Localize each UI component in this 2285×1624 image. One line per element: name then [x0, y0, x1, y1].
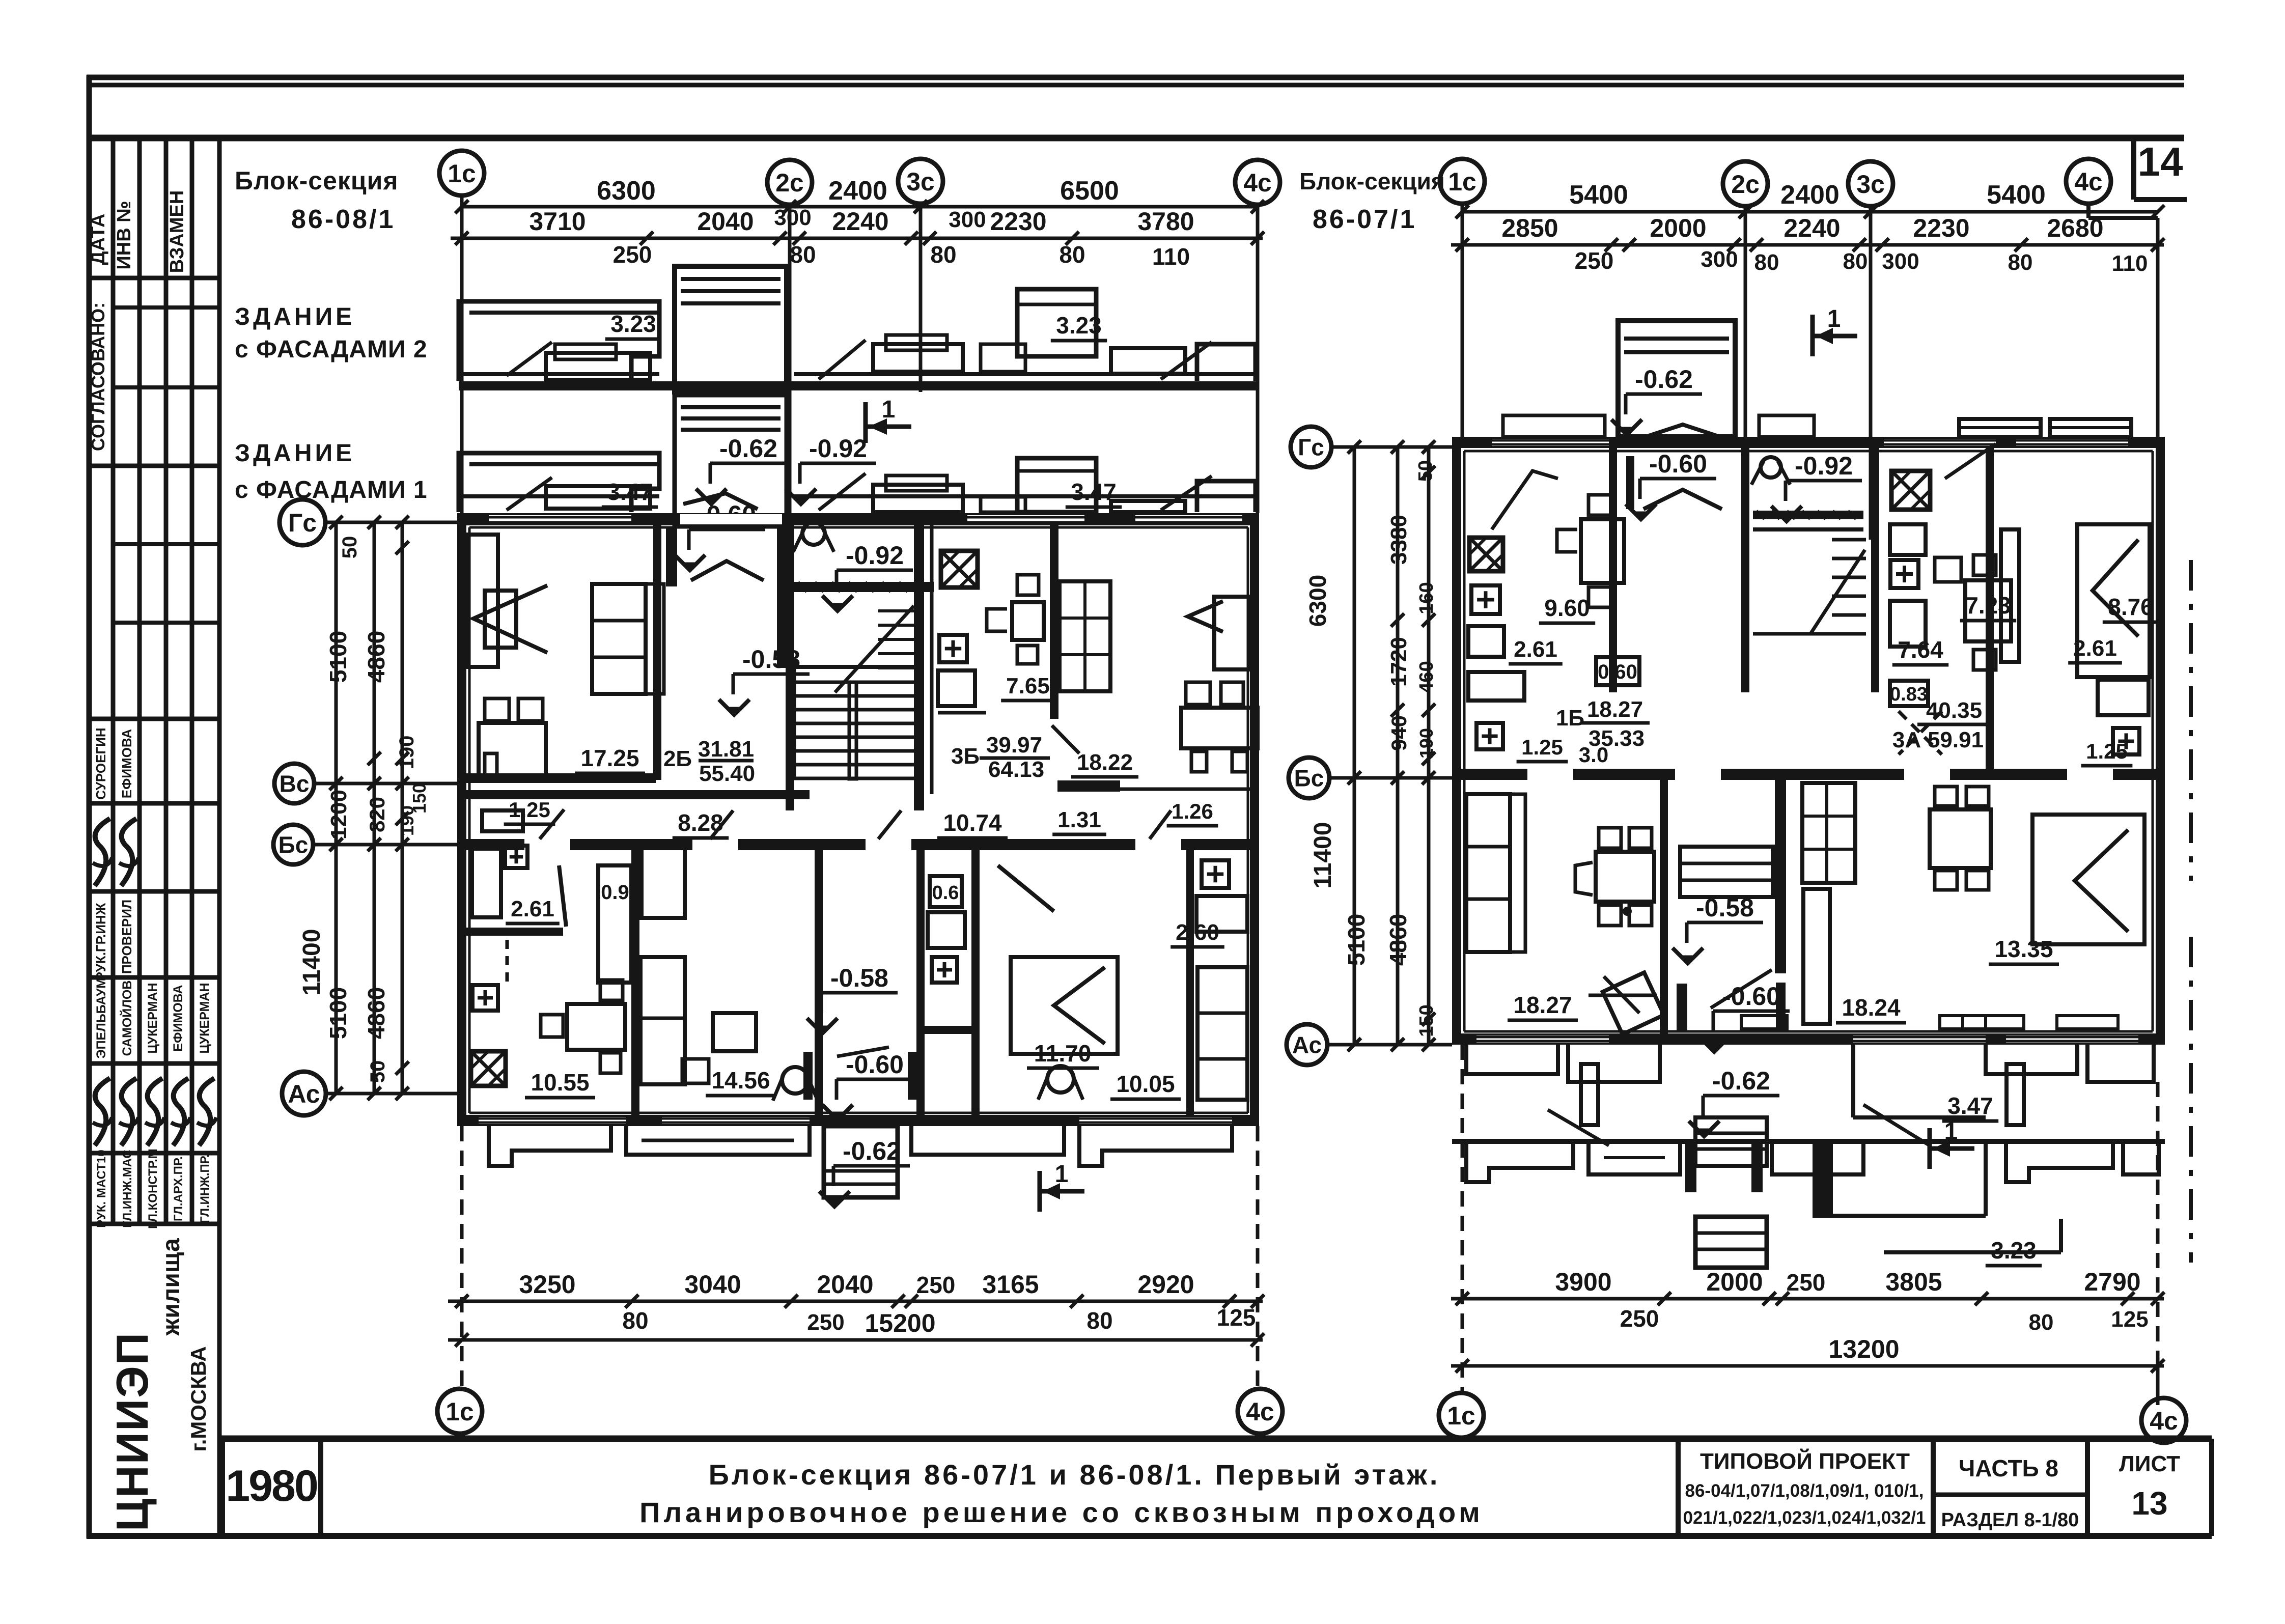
top wall window strips — [489, 515, 631, 523]
room 14.56 furniture — [642, 843, 685, 918]
left sidebar stamp table — [111, 138, 116, 1224]
svg-text:150: 150 — [409, 783, 430, 814]
svg-text:2230: 2230 — [990, 207, 1046, 236]
partition vestibule right b — [1775, 780, 1786, 973]
svg-text:-0.60: -0.60 — [846, 1050, 904, 1079]
door swing wing a — [1863, 1105, 1930, 1145]
sink kitchen 7.65 — [939, 635, 967, 662]
part cell left rule — [1931, 1439, 1936, 1536]
vertical dim line A right plan — [1353, 447, 1356, 1045]
svg-text:80: 80 — [2029, 1310, 2054, 1335]
axis line 2c drop — [788, 205, 792, 524]
bath right fixtures — [930, 876, 962, 907]
svg-text:Планировочное решение со ск: Планировочное решение со сквозным проход… — [639, 1496, 1484, 1528]
svg-text:4c: 4c — [2150, 1407, 2178, 1435]
svg-text:940: 940 — [1387, 715, 1411, 751]
left plan bottom dim row 1 — [448, 1300, 1263, 1303]
svg-text:18.22: 18.22 — [1077, 750, 1133, 775]
railing line right plan — [1853, 1115, 1986, 1119]
svg-text:150: 150 — [1416, 1004, 1437, 1037]
sofa room 18.22 — [1214, 597, 1250, 669]
svg-text:3250: 3250 — [519, 1270, 575, 1299]
svg-text:ЦУКЕРМАН: ЦУКЕРМАН — [198, 983, 212, 1053]
wing center porch — [1695, 1217, 1767, 1268]
svg-text:59.91: 59.91 — [1928, 727, 1984, 752]
axis circle 3c top-left plan — [898, 159, 943, 204]
axis 4c drop bottom right plan — [2156, 1082, 2160, 1405]
svg-text:10.05: 10.05 — [1116, 1071, 1175, 1097]
svg-text:-0.60: -0.60 — [1649, 450, 1707, 478]
svg-text:190: 190 — [1416, 728, 1437, 759]
svg-text:3.23: 3.23 — [610, 311, 656, 337]
svg-text:7.23: 7.23 — [1965, 592, 2011, 619]
svg-text:0.6: 0.6 — [932, 882, 959, 904]
svg-text:18.24: 18.24 — [1842, 994, 1901, 1021]
svg-text:1.26: 1.26 — [1172, 799, 1213, 823]
sink bath left — [505, 846, 527, 868]
axis circle Бс left plan — [273, 825, 313, 864]
svg-text:Блок-секция: Блок-секция — [1299, 168, 1445, 194]
top exterior wall right plan — [1452, 437, 2165, 448]
svg-text:Гс: Гс — [288, 509, 317, 537]
svg-text:80: 80 — [790, 241, 816, 268]
stairwell top line right plan — [1753, 527, 1863, 531]
dining table right plan — [1930, 809, 1991, 868]
svg-text:250: 250 — [613, 241, 652, 268]
svg-text:РАЗДЕЛ 8-1/80: РАЗДЕЛ 8-1/80 — [1941, 1509, 2079, 1531]
svg-text:13.35: 13.35 — [1994, 936, 2053, 962]
door swing right top b — [1646, 425, 1720, 437]
svg-text:6500: 6500 — [1060, 176, 1119, 206]
axis circle Ас left plan — [282, 1072, 326, 1115]
svg-text:ЕФИМОВА: ЕФИМОВА — [171, 985, 185, 1051]
lower balcony boxes under bottom wall — [489, 1126, 611, 1166]
svg-text:Гс: Гс — [1298, 434, 1324, 461]
svg-text:17.25: 17.25 — [580, 745, 639, 771]
svg-text:80: 80 — [1086, 1307, 1112, 1334]
svg-text:3710: 3710 — [529, 207, 586, 236]
svg-text:5100: 5100 — [1343, 914, 1370, 966]
wall segment right of 18.22 label — [1057, 780, 1120, 792]
left kitchen table — [567, 1004, 625, 1050]
shelf grid right plan — [1802, 783, 1855, 883]
svg-text:Ас: Ас — [1292, 1032, 1322, 1058]
facade1 band top lines — [459, 494, 659, 498]
stove right plan left kitchen — [1469, 538, 1503, 571]
left plan dim line row 1 — [462, 205, 1258, 209]
svg-text:ГЛ.ИНЖ.МАС: ГЛ.ИНЖ.МАС — [121, 1150, 134, 1228]
wall at axis 2c stair left upper — [777, 525, 787, 668]
svg-text:ЦНИИЭП: ЦНИИЭП — [107, 1332, 157, 1531]
right plan bottom dim row 2 — [1451, 1364, 2164, 1368]
svg-text:3Б: 3Б — [951, 744, 980, 769]
svg-text:3.23: 3.23 — [1056, 312, 1102, 339]
counter kitchen 7.65 — [938, 670, 975, 706]
svg-text:80: 80 — [2008, 250, 2033, 275]
svg-text:80: 80 — [1059, 241, 1085, 268]
svg-text:2680: 2680 — [2047, 214, 2103, 242]
armchair table right plan left — [1596, 852, 1654, 902]
wardrobe strip dining — [1803, 889, 1830, 1024]
svg-text:с ФАСАДАМИ 2: с ФАСАДАМИ 2 — [235, 336, 428, 363]
svg-text:Ас: Ас — [288, 1080, 320, 1108]
svg-text:3.0: 3.0 — [1579, 743, 1608, 767]
left plan left exterior wall — [457, 513, 466, 1126]
svg-text:3040: 3040 — [684, 1270, 741, 1299]
svg-text:250: 250 — [807, 1310, 844, 1335]
vestibule door peak upper — [1643, 490, 1722, 509]
year cell left rule — [220, 1439, 225, 1536]
armchair left — [1623, 907, 1632, 916]
svg-text:РУК. МАСТ10: РУК. МАСТ10 — [95, 1150, 108, 1227]
bath partition right — [924, 1026, 978, 1034]
partition living/vestibule right plan — [1660, 780, 1668, 1033]
svg-text:1.31: 1.31 — [1057, 807, 1101, 832]
axis circle 4c top-left plan — [1235, 160, 1280, 205]
title block top thick rule — [219, 1436, 2212, 1442]
dining table room 18.22 — [1181, 708, 1258, 748]
facade 2 sills — [981, 344, 1025, 372]
svg-text:4c: 4c — [2074, 167, 2103, 196]
svg-text:021/1,022/1,023/1,024/1,032/1: 021/1,022/1,023/1,024/1,032/1 — [1683, 1508, 1926, 1528]
svg-text:300: 300 — [774, 205, 811, 230]
svg-text:2240: 2240 — [1784, 214, 1840, 242]
ceiling lamp left — [782, 1067, 809, 1094]
svg-text:4860: 4860 — [363, 631, 389, 683]
stair landing hatched wall right plan — [1753, 511, 1863, 519]
axis line Гс right plan — [1331, 445, 1452, 449]
door dash bath — [506, 940, 509, 983]
svg-text:2.61: 2.61 — [511, 897, 554, 921]
svg-text:ГЛ.ИНЖ.ПР.: ГЛ.ИНЖ.ПР. — [198, 1154, 212, 1223]
svg-text:ЦУКЕРМАН: ЦУКЕРМАН — [146, 983, 160, 1053]
svg-text:1.25: 1.25 — [509, 798, 550, 822]
svg-text:ИНВ №: ИНВ № — [114, 201, 135, 269]
svg-text:110: 110 — [2112, 251, 2148, 276]
wall at axis Вс upper bar — [457, 773, 656, 783]
wall at axis Bc lower — [457, 839, 1259, 850]
axis 1c drop bottom right plan — [1461, 1045, 1464, 1395]
door swing right top a — [1945, 444, 1996, 479]
svg-text:2920: 2920 — [1137, 1270, 1194, 1299]
svg-text:40.35: 40.35 — [1926, 698, 1982, 723]
stair right wall right plan — [1871, 448, 1879, 692]
right plan bottom dim row 1 — [1451, 1297, 2164, 1301]
svg-text:с ФАСАДАМИ 1: с ФАСАДАМИ 1 — [235, 477, 428, 503]
axis line 1c drop — [460, 195, 464, 513]
stair treads right plan — [1832, 538, 1866, 542]
wall at axis Бс right plan — [1452, 769, 2165, 780]
upper flight treads — [878, 609, 914, 612]
axis circle 2c top-right plan — [1723, 161, 1768, 206]
4c leader horizontal — [2088, 216, 2158, 220]
svg-text:86-07/1: 86-07/1 — [1313, 205, 1416, 234]
svg-text:125: 125 — [1217, 1304, 1256, 1331]
wall at axis Вс lower bar — [457, 790, 810, 799]
axis line Бс right plan — [1329, 776, 1452, 780]
svg-text:РУК.ГР.ИНЖ: РУК.ГР.ИНЖ — [93, 903, 108, 981]
svg-text:3c: 3c — [1856, 170, 1885, 199]
svg-text:125: 125 — [2111, 1307, 2148, 1332]
svg-text:3А: 3А — [1892, 727, 1921, 752]
sheet number box: bottom side — [2134, 197, 2187, 202]
box 0.60 — [1596, 657, 1639, 685]
facade 2 balcony 1 — [459, 301, 659, 381]
sheet cell left rule — [2085, 1439, 2090, 1536]
svg-text:190: 190 — [396, 736, 418, 770]
svg-text:ЭПЕЛЬБАУМ: ЭПЕЛЬБАУМ — [94, 978, 108, 1058]
porch pillar a — [1581, 1064, 1598, 1125]
svg-text:3900: 3900 — [1555, 1268, 1611, 1296]
svg-text:4860: 4860 — [363, 987, 389, 1039]
stair upper landing hatched wall — [794, 582, 934, 592]
svg-text:250: 250 — [1575, 247, 1614, 274]
svg-text:3c: 3c — [906, 167, 935, 196]
interior wall face lines left plan — [469, 526, 1248, 529]
svg-text:300: 300 — [949, 207, 986, 232]
axis circle Бс right plan — [1289, 758, 1329, 798]
svg-text:3805: 3805 — [1885, 1268, 1942, 1296]
axis circle 4c bottom right plan — [2141, 1398, 2186, 1443]
svg-text:4860: 4860 — [1385, 914, 1411, 966]
svg-text:5100: 5100 — [325, 631, 351, 683]
svg-text:50: 50 — [1415, 460, 1436, 482]
stove kitchen 7.65 — [941, 551, 978, 587]
sheet frame: outer top border line — [87, 75, 2184, 80]
partition vestibule/bath right — [916, 850, 925, 1115]
svg-text:5400: 5400 — [1569, 180, 1628, 210]
svg-text:-0.58: -0.58 — [830, 964, 888, 992]
svg-text:4c: 4c — [1243, 169, 1272, 197]
svg-text:2.61: 2.61 — [2073, 636, 2117, 661]
svg-text:г.МОСКВА: г.МОСКВА — [186, 1346, 210, 1451]
svg-text:6300: 6300 — [597, 176, 656, 206]
axis 2c drop right plan — [1744, 206, 1747, 437]
sheet number box: left side — [2131, 138, 2136, 200]
svg-text:1: 1 — [882, 396, 896, 423]
svg-text:2Б: 2Б — [663, 746, 692, 771]
stove right plan second kitchen — [1891, 471, 1930, 510]
svg-text:1c: 1c — [1447, 1402, 1475, 1430]
sheet frame: left border — [87, 75, 92, 1538]
bed lower right — [2032, 815, 2144, 944]
porch steps right plan center — [1695, 1117, 1767, 1166]
svg-text:ВЗАМЕН: ВЗАМЕН — [166, 190, 188, 273]
axis circle Гс right plan — [1291, 427, 1331, 467]
stove left kitchen — [471, 1051, 506, 1086]
door swing facade2 center — [819, 340, 866, 379]
shelf bath left — [482, 810, 523, 831]
sofa sectional right plan left — [1466, 794, 1510, 952]
svg-text:10.74: 10.74 — [943, 809, 1002, 836]
vertical dim line C — [401, 522, 404, 1094]
facade1 balcony 1 — [459, 453, 659, 512]
hatched vestibule side wall — [666, 527, 677, 586]
svg-text:Блок-секция: Блок-секция — [235, 166, 399, 195]
axis circle 3c top-right plan — [1848, 161, 1893, 206]
right kitchen fixtures — [1196, 896, 1247, 932]
vertical dim line C right plan — [1427, 447, 1431, 1045]
svg-text:-0.62: -0.62 — [1635, 365, 1693, 394]
svg-text:-0.92: -0.92 — [846, 541, 904, 570]
svg-text:1: 1 — [1827, 305, 1841, 332]
sofa sectional living — [592, 584, 646, 694]
axis line 3c drop — [919, 204, 923, 392]
svg-text:2790: 2790 — [2084, 1268, 2140, 1296]
svg-text:11.70: 11.70 — [1034, 1040, 1092, 1067]
right plan dim row 2 — [1451, 243, 2164, 247]
lamp and -0.92 right plan — [1761, 457, 1781, 478]
svg-text:ГЛ.КОНСТР.М: ГЛ.КОНСТР.М — [146, 1149, 160, 1229]
wall living/hall — [653, 525, 661, 780]
wardrobe strip living left — [468, 535, 498, 667]
section mark 1 (left plan bottom) — [1038, 1171, 1042, 1212]
svg-text:10.55: 10.55 — [531, 1069, 589, 1096]
hatched walls lower vestibule — [1677, 984, 1687, 1031]
svg-text:ТИПОВОЙ ПРОЕКТ: ТИПОВОЙ ПРОЕКТ — [1700, 1448, 1910, 1474]
axis circle Вс left plan — [274, 764, 314, 803]
svg-text:-0.58: -0.58 — [742, 645, 800, 674]
stair flight treads — [794, 681, 914, 684]
svg-text:31.81: 31.81 — [698, 737, 754, 762]
svg-text:ЛИСТ: ЛИСТ — [2119, 1451, 2180, 1476]
svg-text:0.60: 0.60 — [1598, 661, 1637, 683]
svg-text:86-08/1: 86-08/1 — [291, 205, 395, 234]
sidebar header bottom rule — [92, 276, 219, 281]
right plan left exterior wall — [1452, 448, 1461, 1045]
vertical dim line B right plan — [1396, 447, 1400, 1045]
year cell right rule — [318, 1439, 323, 1536]
small tilted table — [1589, 994, 1657, 997]
stair half landing right plan — [1753, 632, 1866, 636]
svg-text:11400: 11400 — [1309, 822, 1336, 889]
svg-text:80: 80 — [1843, 249, 1868, 274]
bathtub left — [472, 849, 501, 917]
partition bath/bedroom right — [971, 850, 980, 1115]
interior wall face lines right plan — [1463, 451, 1466, 1031]
drawing area top rule — [87, 135, 2184, 142]
svg-text:Вс: Вс — [280, 771, 310, 797]
balcony door line room 18.22 — [1120, 788, 1250, 791]
svg-text:80: 80 — [1754, 250, 1779, 275]
stair half landing — [794, 665, 914, 669]
svg-text:3165: 3165 — [982, 1270, 1039, 1299]
svg-text:ПРОВЕРИЛ: ПРОВЕРИЛ — [119, 900, 134, 974]
svg-text:1: 1 — [1055, 1161, 1069, 1188]
svg-text:300: 300 — [1882, 249, 1919, 274]
door swing facade2 b1 — [507, 342, 552, 376]
svg-text:300: 300 — [1701, 247, 1738, 272]
svg-text:0.83: 0.83 — [1890, 684, 1928, 705]
vertical dim line A — [335, 522, 338, 1094]
svg-text:-0.58: -0.58 — [1696, 893, 1754, 922]
svg-text:-0.62: -0.62 — [719, 434, 777, 463]
svg-text:1200: 1200 — [326, 790, 351, 839]
svg-text:1.25: 1.25 — [1521, 735, 1563, 759]
axis line Бс — [313, 843, 457, 847]
svg-text:ЕФИМОВА: ЕФИМОВА — [119, 729, 134, 799]
svg-text:250: 250 — [1620, 1305, 1659, 1332]
partition bath/closet — [631, 850, 639, 1115]
svg-text:-0.62: -0.62 — [1712, 1067, 1770, 1095]
svg-text:14.56: 14.56 — [711, 1067, 770, 1094]
facade 2 wall band — [459, 381, 1259, 390]
door swing lower vestibule — [837, 1047, 889, 1056]
kitchen partition right apartment — [1050, 525, 1058, 719]
right plan lower balconies and passage wing — [1466, 1045, 1558, 1074]
svg-text:1Б: 1Б — [1556, 706, 1584, 731]
axis circle 1c bottom-left plan — [437, 1389, 482, 1434]
dining table left — [479, 723, 546, 780]
axis circle 1c top-left plan — [439, 151, 484, 195]
svg-text:ДАТА: ДАТА — [88, 214, 109, 265]
door swing facade2 right — [1161, 342, 1212, 379]
svg-text:Бс: Бс — [278, 832, 309, 858]
svg-text:50: 50 — [339, 536, 361, 559]
right plan bottom exterior wall — [1452, 1033, 2165, 1045]
svg-text:15200: 15200 — [865, 1309, 935, 1337]
axis line Гс — [325, 521, 457, 524]
wardrobe strip bedroom — [2001, 529, 2019, 662]
svg-text:39.97: 39.97 — [986, 733, 1042, 758]
svg-text:2400: 2400 — [1780, 180, 1840, 210]
porch side wall right plan — [1851, 1045, 1855, 1117]
facade1 sills — [981, 497, 1025, 512]
right plan right exterior wall — [2156, 448, 2165, 1045]
section trace line right of plan — [2189, 560, 2193, 881]
svg-text:СУРОЕГИН: СУРОЕГИН — [93, 727, 108, 799]
svg-text:4c: 4c — [1246, 1397, 1274, 1426]
axis 1c drop right plan — [1461, 204, 1464, 437]
svg-text:2.61: 2.61 — [1514, 637, 1557, 662]
door swing facade1 right — [1161, 476, 1212, 510]
kitchen window sill — [938, 711, 986, 715]
top balcony small boxes — [1503, 415, 1605, 437]
svg-text:САМОЙЛОВ: САМОЙЛОВ — [119, 981, 134, 1056]
left plan right exterior wall — [1250, 513, 1259, 1126]
vestibule steps right plan — [1680, 847, 1773, 897]
svg-text:2230: 2230 — [1913, 214, 1969, 242]
svg-text:-0.92: -0.92 — [1795, 452, 1853, 480]
section mark 1 (right plan top) — [1810, 315, 1815, 356]
svg-text:14: 14 — [2138, 139, 2183, 184]
porch pillar b — [2007, 1064, 2024, 1125]
axis line Ас right plan — [1327, 1043, 1452, 1047]
door swing facade1 center — [819, 473, 866, 510]
facade1 entrance vestibule shaft — [675, 395, 787, 524]
bed top right — [2077, 524, 2150, 677]
svg-text:80: 80 — [930, 241, 956, 268]
svg-text:6300: 6300 — [1304, 575, 1331, 627]
svg-text:2.60: 2.60 — [1176, 920, 1219, 945]
axis circle Ас right plan — [1287, 1024, 1327, 1065]
svg-text:2400: 2400 — [828, 176, 887, 206]
balcony below Ас a — [1568, 1045, 1660, 1082]
svg-text:5100: 5100 — [325, 987, 351, 1039]
partition kitchen/hall right plan — [1609, 448, 1617, 692]
vertical dim line B — [373, 522, 376, 1094]
wall at axis 2c stair left — [786, 525, 794, 810]
box 0.83 — [1890, 681, 1928, 706]
svg-text:2000: 2000 — [1706, 1268, 1763, 1296]
axis circle 2c top-left plan — [767, 160, 812, 205]
door swing kitchen partition — [1052, 725, 1079, 753]
left plan dim line row 2 — [451, 237, 1263, 240]
section mark 1 (left plan top) — [863, 402, 868, 443]
svg-text:ГЛ.АРХ.ПР.: ГЛ.АРХ.ПР. — [172, 1156, 185, 1221]
axis 4c drop to bottom circle — [1256, 1126, 1260, 1395]
axis circle Гс left plan — [280, 499, 325, 545]
